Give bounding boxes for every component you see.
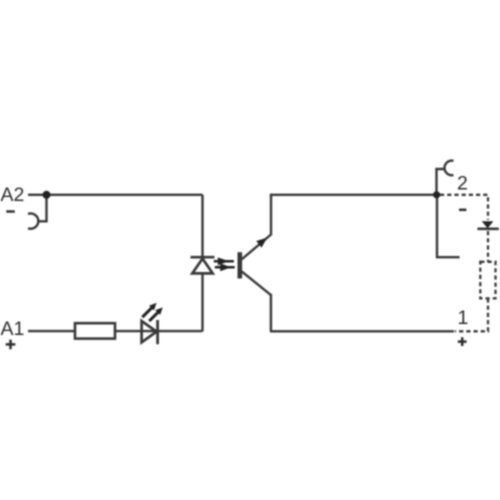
svg-text:A2: A2 [1,184,25,206]
svg-text:A1: A1 [1,318,25,340]
svg-text:2: 2 [457,173,468,195]
svg-text:1: 1 [458,307,469,329]
